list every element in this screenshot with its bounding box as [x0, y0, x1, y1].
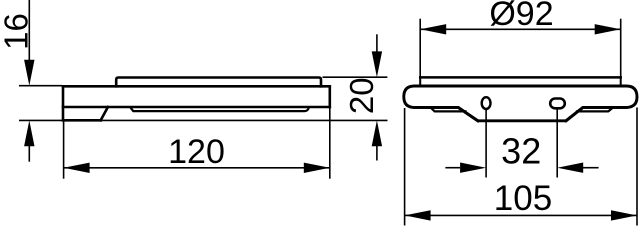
20 dim line lower tail: [376, 146, 378, 161]
left bracket lip: [431, 107, 466, 111]
105 left extension line: [404, 108, 406, 226]
20 arrow down: [372, 51, 382, 77]
oval screw hole: [482, 97, 491, 109]
svg-text:105: 105: [494, 179, 552, 218]
20 top extension line: [323, 76, 388, 78]
top plate (dish rim, side view): [116, 78, 321, 87]
dimension 32: [445, 109, 598, 178]
16 dim line lower tail: [28, 146, 30, 162]
16 arrow down: [24, 60, 34, 86]
120 left extension line: [63, 120, 65, 178]
105 right extension line: [636, 108, 638, 226]
left view: soap dish side profile: [63, 78, 330, 121]
20 arrow up: [372, 120, 382, 146]
bar bottom edge right portion: [566, 107, 626, 120]
32 left extension line (from oval hole): [485, 109, 487, 178]
right bracket lip: [577, 107, 613, 111]
bracket bottom edge: [63, 119, 101, 122]
body top edge: [63, 85, 330, 88]
d92 right extension line: [620, 19, 622, 78]
body right edge: [328, 86, 331, 107]
shared bottom extension line: [19, 119, 388, 121]
32 arrow pointing left: [557, 163, 583, 173]
svg-text:16: 16: [0, 13, 35, 50]
16 arrow up: [24, 120, 34, 146]
svg-text:120: 120: [168, 133, 225, 171]
105 arrow left: [405, 210, 431, 220]
32 right extension line (from slot hole): [556, 110, 558, 178]
body bottom edge: [63, 106, 330, 109]
svg-text:32: 32: [501, 131, 541, 172]
dimension 20: [323, 34, 388, 160]
dish plate right edge: [620, 77, 622, 86]
32 dim line right part: [583, 167, 599, 169]
120 right extension line: [329, 107, 331, 179]
svg-text:20: 20: [343, 77, 380, 114]
32 arrow pointing right: [460, 163, 486, 173]
d92 arrow left: [420, 24, 446, 34]
svg-text:Ø92: Ø92: [489, 0, 553, 33]
dimension 16: [0, 0, 62, 162]
dimension diameter 92: [420, 0, 621, 77]
dish plate left edge: [419, 77, 421, 86]
body left edge: [62, 86, 65, 120]
120 arrow left: [64, 163, 90, 173]
bracket diagonal: [101, 107, 108, 120]
bar bottom edge left portion: [415, 107, 478, 120]
20 dim line upper part: [376, 34, 378, 52]
16 top extension line: [19, 85, 62, 87]
dimension 120: [64, 107, 330, 179]
105 arrow right: [611, 210, 637, 220]
dish plate top edge: [420, 76, 621, 79]
120 dim line: [64, 167, 330, 169]
d92 dim line: [420, 28, 621, 30]
right view: front view: [404, 77, 637, 120]
16 dim line upper part: [28, 0, 30, 61]
d92 left extension line: [419, 19, 421, 78]
bracket bar outline: [404, 86, 637, 121]
slot hole: [550, 99, 565, 109]
d92 arrow right: [595, 24, 621, 34]
dimension 105: [405, 108, 637, 226]
recessed bottom lip line: [130, 107, 308, 111]
32 dim line left part: [445, 167, 460, 169]
105 dim line: [405, 214, 637, 216]
120 arrow right: [304, 163, 330, 173]
